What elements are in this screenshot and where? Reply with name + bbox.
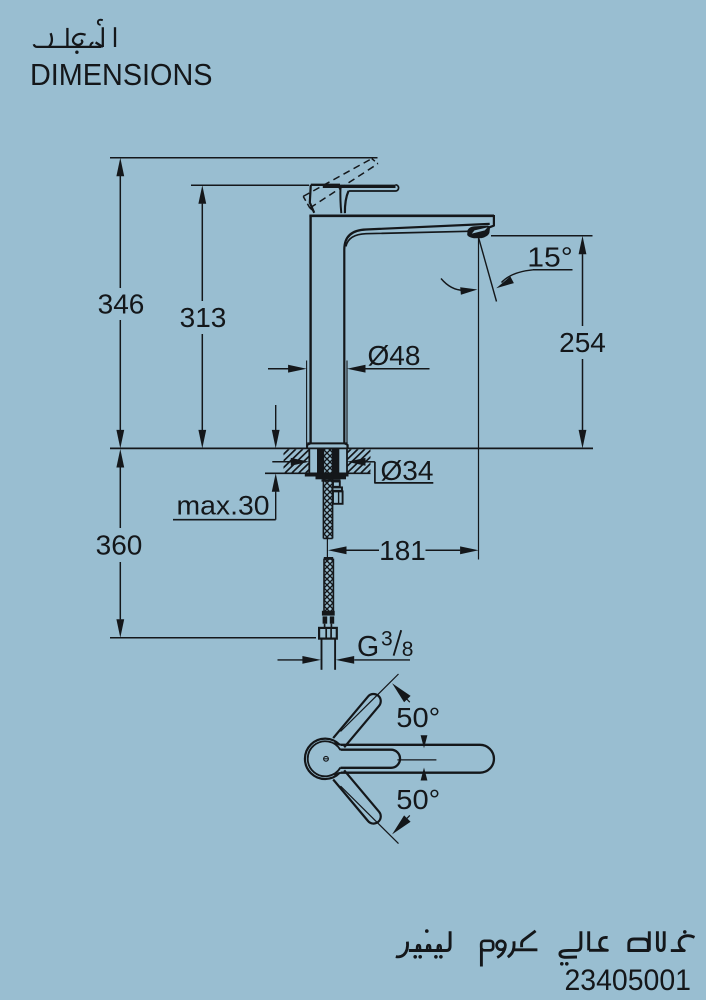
topview center arrows [421, 735, 428, 748]
svg-text:3: 3 [381, 628, 393, 651]
faucet spout top edge [309, 214, 494, 217]
topview lever rotated down 50deg [333, 770, 381, 823]
connection pipe [321, 639, 323, 670]
topview body circle inner [308, 741, 341, 776]
dim 346 line + arrows [119, 176, 121, 288]
topview 50deg axis line upper [341, 674, 399, 732]
dim max.30 arrows [275, 405, 277, 430]
faucet base flange [307, 442, 347, 444]
hose swivel rings [323, 616, 328, 623]
svg-text:G: G [357, 631, 379, 663]
topview lever rotated up 50deg [333, 694, 381, 747]
topview 50deg axis line lower [341, 786, 399, 844]
mounting nut [316, 477, 347, 480]
dim 254 extension line [491, 235, 593, 237]
svg-text:8: 8 [402, 638, 414, 661]
topview body circle outer [305, 739, 340, 779]
handle lever neck curve [345, 191, 349, 213]
deck top surface line [110, 447, 593, 449]
G3/8 connection nut [319, 628, 337, 639]
hose side fitting [333, 482, 340, 487]
topview spout outline [341, 745, 494, 773]
topview 50deg arrow lower [392, 815, 411, 834]
braided hose upper section [323, 449, 332, 539]
svg-text:Ø34: Ø34 [381, 455, 434, 486]
svg-text:181: 181 [379, 535, 426, 566]
svg-text:346: 346 [98, 289, 145, 320]
title Arabic "الأبعاد" [34, 20, 115, 54]
handle lever blade bottom [349, 190, 396, 192]
hose break line [326, 539, 328, 559]
svg-text:15°: 15° [527, 242, 573, 273]
topview 50deg arrow upper [392, 683, 411, 702]
topview lever at rest [341, 750, 401, 768]
dim 346 extension line top [110, 157, 378, 159]
svg-text:254: 254 [559, 327, 606, 358]
topview GROHE mark [324, 756, 329, 761]
hose end collar [322, 611, 335, 616]
dim D34 label frame [375, 462, 433, 483]
faucet column left edge [309, 215, 311, 443]
deck bottom line [265, 472, 371, 474]
15deg swing arc + arrowhead [441, 279, 466, 291]
dim D48 arrows [268, 368, 289, 370]
deck hatching [258, 449, 393, 473]
dim 313 line + arrows [201, 204, 203, 301]
svg-text:DIMENSIONS: DIMENSIONS [30, 57, 213, 92]
faucet spout tip end [489, 215, 494, 227]
dim D48 extension lines [306, 361, 308, 448]
15deg vertical reference line [478, 237, 480, 559]
dim G3/8 line + arrows [278, 659, 303, 661]
dim 254 line + arrows [582, 254, 584, 326]
faucet spout underside + column right edge [344, 224, 489, 444]
handle housing left edge [310, 185, 314, 213]
15deg slanted stream line [479, 237, 497, 301]
threaded shank walls [317, 449, 323, 474]
handle lever blade top [323, 185, 396, 188]
topview centerline [397, 759, 436, 761]
washer under deck [305, 474, 349, 477]
svg-text:50°: 50° [396, 702, 440, 733]
caption Arabic "خلاط عالي كروم لينير" [396, 929, 695, 966]
deck hole edges [308, 448, 310, 473]
handle raised dashed outline [303, 159, 378, 213]
svg-text:313: 313 [180, 302, 227, 333]
svg-text:max.30: max.30 [177, 491, 270, 521]
svg-text:Ø48: Ø48 [368, 340, 421, 371]
faucet aerator [468, 226, 489, 237]
faucet spout underside inner line [346, 231, 468, 246]
handle housing right slant [339, 187, 342, 214]
dim max.30 label + underline [173, 519, 276, 521]
svg-text:360: 360 [96, 530, 143, 561]
dim 360 line + arrows [119, 467, 121, 528]
svg-text:23405001: 23405001 [565, 964, 692, 997]
dim 360 bottom extension line [110, 637, 316, 639]
dim 313 extension line [191, 184, 309, 186]
svg-text:50°: 50° [396, 784, 440, 815]
braided hose lower section [324, 557, 333, 560]
handle lever blade tip [396, 185, 399, 191]
handle housing top [311, 184, 340, 186]
dim D34 arrows [272, 461, 291, 463]
dim 181 line + arrows [328, 546, 347, 554]
